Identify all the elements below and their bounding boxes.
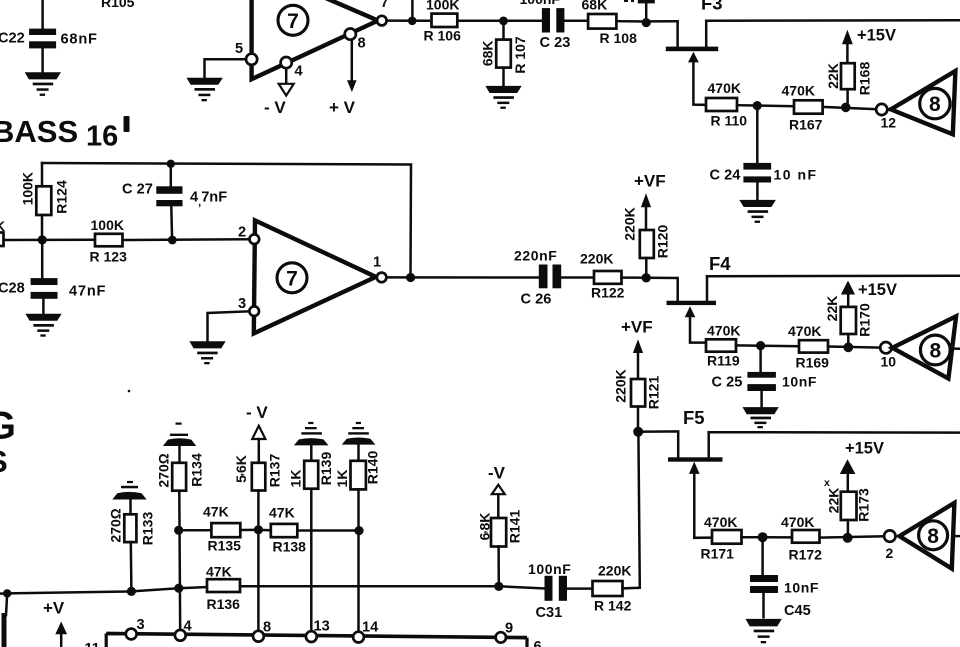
- resistor R133 270R: [108, 500, 156, 592]
- pin 12 input circle: [876, 104, 896, 130]
- resistor R134 270R: [156, 446, 205, 635]
- svg-text:22K: 22K: [825, 63, 841, 89]
- svg-text:R 108: R 108: [600, 30, 638, 46]
- ground below C22: [25, 72, 61, 96]
- capacitor C26 220nF: [514, 248, 561, 308]
- ground below C25: [743, 407, 779, 428]
- capacitor C31 100nF: [528, 561, 571, 621]
- wire from R105 down to C22: [41, 0, 44, 29]
- wire R110 to R167: [737, 101, 794, 110]
- wire R138 to R140 lead: [258, 526, 363, 535]
- svg-text:22K: 22K: [824, 296, 840, 322]
- op-amp U7a (top, cut off): [252, 0, 378, 79]
- svg-text:470K: 470K: [788, 323, 821, 339]
- bus wire from left edge through R133/R134 to R136: [0, 587, 207, 594]
- svg-text:470K: 470K: [707, 323, 740, 339]
- wire R135 to R137 lead: [240, 525, 263, 534]
- resistor R169 470K: [788, 323, 829, 371]
- svg-text:270Ω: 270Ω: [156, 453, 172, 487]
- svg-text:47K: 47K: [206, 564, 232, 580]
- svg-text:1K: 1K: [288, 470, 304, 488]
- svg-text:7: 7: [286, 268, 298, 291]
- IC pin 3: [126, 617, 145, 639]
- op-amp U7b: [254, 220, 376, 333]
- wire R123 to pin 2: [123, 236, 248, 245]
- wire F4 drain rail to right edge: [707, 274, 960, 277]
- svg-text:C31: C31: [536, 605, 563, 621]
- svg-text:+15V: +15V: [845, 440, 884, 458]
- resistor R119 470K: [706, 323, 740, 369]
- svg-text:8: 8: [927, 525, 939, 548]
- svg-text:C 26: C 26: [521, 292, 552, 308]
- +VF arrow for R121: [621, 318, 653, 380]
- resistor R139 1K: [288, 445, 335, 635]
- resistor R135 47K: [203, 504, 241, 554]
- svg-text:4: 4: [295, 64, 304, 80]
- resistor R121 220K: [613, 369, 662, 432]
- pin 8 of U7a: [345, 28, 366, 51]
- pin 1 output of U7b: [373, 255, 386, 283]
- svg-text:220nF: 220nF: [514, 248, 557, 264]
- resistor R136 47K (in series with bus): [206, 564, 240, 613]
- section title BASS 16': [0, 114, 130, 153]
- svg-text:R135: R135: [208, 538, 242, 554]
- pin 2 input circle: [884, 530, 895, 561]
- svg-text:+V: +V: [43, 599, 65, 618]
- svg-text:470K: 470K: [704, 514, 737, 530]
- ground below C45: [746, 619, 782, 643]
- svg-text:+15V: +15V: [857, 26, 896, 44]
- svg-text:C 25: C 25: [712, 375, 743, 391]
- node R121/R142/F5 junction: [633, 427, 643, 437]
- svg-text:47K: 47K: [269, 505, 295, 521]
- wire C22 to ground: [41, 48, 44, 72]
- wire U7b output to C26: [386, 273, 538, 282]
- resistor R141 6.8K: [477, 510, 523, 587]
- transistor F5 (JFET): [638, 407, 722, 538]
- svg-text:100K: 100K: [20, 172, 36, 205]
- node R107 junction: [499, 17, 508, 26]
- wire R172 to amp input: [820, 533, 885, 543]
- wire C26 to R122: [561, 276, 594, 279]
- svg-text:270Ω: 270Ω: [108, 508, 124, 542]
- svg-text:3: 3: [137, 617, 145, 633]
- transistor F3 (JFET): [666, 0, 723, 105]
- svg-text:C28: C28: [0, 281, 25, 297]
- svg-text:47nF: 47nF: [69, 284, 106, 300]
- wire R171 to R172: [742, 532, 793, 542]
- svg-text:S: S: [0, 444, 8, 479]
- svg-text:R171: R171: [701, 546, 735, 562]
- IC pin 13: [306, 619, 330, 642]
- wire R134 node to R135: [174, 526, 211, 535]
- resistor R106 100K: [424, 0, 462, 43]
- svg-text:- V: - V: [264, 98, 286, 117]
- -V arrow above R141: [488, 464, 506, 519]
- resistor R167 470K: [782, 83, 823, 133]
- wire R119 node down to C25: [759, 346, 762, 372]
- svg-text:R119: R119: [707, 353, 740, 369]
- node C27 top junction: [167, 160, 175, 168]
- amplifier U8b triangle: [892, 316, 960, 378]
- wire C31 to R142: [567, 587, 593, 590]
- ground below R107: [485, 86, 521, 109]
- svg-text:2: 2: [886, 545, 894, 561]
- svg-text:8: 8: [358, 36, 366, 52]
- svg-text:220K: 220K: [613, 369, 629, 402]
- bus wire R136 to R141 node and C31: [240, 582, 545, 591]
- wire R122 to F4 node: [622, 273, 651, 282]
- svg-text:10 nF: 10 nF: [774, 167, 818, 183]
- pin 7 output of U7a: [377, 0, 389, 25]
- capacitor C22: [0, 29, 98, 49]
- transistor F4 (JFET): [646, 253, 731, 343]
- svg-text:100K: 100K: [91, 217, 124, 233]
- svg-text:R140: R140: [365, 451, 381, 485]
- wire pin 3 to ground: [208, 311, 248, 341]
- svg-text:68K: 68K: [582, 0, 608, 12]
- pin 5 of U7a: [235, 41, 257, 65]
- svg-text:9: 9: [505, 621, 513, 637]
- svg-text:F4: F4: [709, 253, 731, 274]
- resistor R122 220K: [580, 251, 625, 301]
- IC pin 11 label (cut at bottom): [85, 641, 100, 647]
- capacitor C27 4.7nF: [122, 164, 227, 240]
- svg-text:C45: C45: [784, 603, 811, 619]
- wire R142 up to F5 node: [623, 432, 640, 589]
- resistor R137 5.6K: [233, 454, 283, 635]
- svg-text:10nF: 10nF: [784, 580, 819, 596]
- svg-text:68nF: 68nF: [61, 32, 98, 48]
- svg-text:68K: 68K: [480, 40, 496, 66]
- chassis ground above R133: [112, 481, 146, 500]
- node R124/C28 junction: [38, 235, 47, 244]
- svg-text:6,8K: 6,8K: [477, 513, 493, 541]
- wire R167 node down to C24: [756, 106, 759, 163]
- svg-text:C 27: C 27: [122, 182, 153, 198]
- wire R108 to F3 node: [617, 20, 646, 23]
- -V arrow above R137: [246, 403, 268, 463]
- svg-text:R 107: R 107: [512, 36, 528, 74]
- node left edge junction: [3, 589, 11, 597]
- svg-text:5,6K: 5,6K: [233, 455, 249, 483]
- svg-text:8: 8: [929, 340, 941, 363]
- svg-text:F3: F3: [701, 0, 723, 14]
- resistor R170 22K: [824, 296, 873, 348]
- svg-text:8: 8: [929, 93, 941, 116]
- resistor R172 470K: [781, 514, 822, 563]
- svg-text:R 142: R 142: [594, 598, 632, 614]
- +15V arrow for R168: [842, 26, 896, 63]
- svg-text:R138: R138: [273, 539, 307, 555]
- svg-text:R105: R105: [101, 0, 135, 10]
- svg-text:6: 6: [534, 639, 542, 647]
- IC pin 8: [253, 620, 271, 642]
- svg-text:R121: R121: [646, 376, 662, 410]
- resistor R107 68K: [480, 21, 529, 86]
- svg-text:2: 2: [238, 225, 246, 241]
- svg-text:13: 13: [314, 619, 330, 635]
- wire C23 to R108: [565, 19, 589, 22]
- IC pin 9: [496, 621, 514, 643]
- svg-text:C22: C22: [0, 31, 25, 47]
- wire R167 to amp input: [823, 103, 876, 113]
- chassis ground above R134: [163, 423, 196, 447]
- +V supply arrow at pin 8: [329, 40, 357, 117]
- wire left edge down: [4, 593, 7, 647]
- IC pin 6 label: [534, 639, 542, 647]
- svg-text:220K: 220K: [598, 563, 631, 579]
- node with stub to cut-off component at top: [624, 0, 655, 27]
- svg-text:+15V: +15V: [858, 281, 897, 299]
- wire pin5 to ground corner: [205, 59, 248, 78]
- resistor R105 (label only, component cut off at top): [101, 0, 135, 10]
- chassis ground above R140: [342, 422, 376, 445]
- svg-text:+VF: +VF: [621, 318, 653, 337]
- resistor R110 470K: [706, 80, 747, 128]
- svg-text:G: G: [0, 404, 16, 447]
- pin 2 of U7b: [238, 225, 259, 245]
- svg-text:R122: R122: [591, 285, 625, 301]
- wire R119 to R169: [736, 341, 799, 350]
- svg-text:1K: 1K: [334, 470, 350, 488]
- wire R106 to C23: [457, 19, 542, 22]
- svg-text:R137: R137: [267, 454, 283, 488]
- ground below C28: [25, 314, 61, 337]
- wire U7a output to R106: [387, 19, 429, 22]
- svg-text:R 110: R 110: [711, 113, 748, 129]
- resistor (cut off) at left edge with K label: [0, 218, 5, 246]
- svg-text:R139: R139: [318, 452, 334, 486]
- svg-text:470K: 470K: [708, 80, 741, 96]
- wire node to F3: [646, 20, 677, 23]
- chassis ground above R139: [294, 422, 329, 446]
- svg-text:R120: R120: [655, 225, 671, 259]
- +15V arrow for R173: [824, 440, 884, 492]
- svg-text:5: 5: [235, 41, 243, 57]
- capacitor C23 100nF: [520, 0, 571, 51]
- svg-text:R136: R136: [207, 596, 241, 612]
- pin 3 of U7b: [238, 296, 259, 316]
- capacitor C45 10nF: [750, 575, 819, 619]
- -V supply arrow at pin 4: [264, 69, 294, 118]
- wire F3 drain rail to right edge: [706, 19, 960, 22]
- resistor R168 22K: [825, 62, 873, 108]
- svg-text:R133: R133: [140, 512, 156, 546]
- svg-text:F5: F5: [683, 407, 705, 428]
- svg-text:R168: R168: [857, 62, 873, 96]
- resistor R123 100K: [90, 217, 128, 265]
- big letter S (cut at left edge): [0, 444, 8, 479]
- svg-text:10: 10: [881, 354, 897, 370]
- svg-text:R124: R124: [54, 180, 70, 214]
- svg-text:10nF: 10nF: [782, 374, 817, 390]
- big letter G (cut at left edge): [0, 404, 16, 447]
- ground below C24: [739, 200, 776, 223]
- +V arrow at bottom left: [43, 599, 67, 647]
- svg-text:14: 14: [362, 620, 379, 636]
- amplifier U8c triangle: [900, 503, 960, 569]
- IC box outline (cut at bottom): [106, 634, 527, 647]
- ground at U7b pin 3: [189, 341, 225, 364]
- svg-text:R141: R141: [507, 510, 523, 544]
- resistor R142 220K: [593, 563, 632, 614]
- resistor R124 100K: [20, 163, 70, 240]
- node R133 bus junction: [127, 587, 136, 596]
- svg-text:+ V: + V: [329, 98, 356, 117]
- wire R169 to amp input: [828, 342, 880, 352]
- svg-text:R 123: R 123: [90, 249, 128, 265]
- pin 10 input circle: [880, 342, 896, 370]
- wire input to R123: [4, 239, 96, 242]
- wire feedback rail (top of BASS section): [42, 163, 411, 278]
- resistor R140 1K: [334, 445, 381, 636]
- svg-text:R172: R172: [789, 547, 823, 563]
- resistor R173 22K: [826, 488, 872, 538]
- capacitor C28 47nF: [0, 240, 106, 314]
- wire R171 node down to C45: [761, 537, 764, 575]
- svg-text:470K: 470K: [782, 83, 815, 99]
- svg-text:16: 16: [86, 121, 118, 153]
- pin 4 of U7a: [281, 57, 304, 80]
- wire F5 drain rail to right edge: [709, 431, 960, 434]
- svg-text:BASS: BASS: [0, 114, 78, 149]
- +VF arrow for R120: [634, 172, 666, 231]
- svg-text:100nF: 100nF: [520, 0, 561, 7]
- svg-text:7: 7: [381, 0, 389, 11]
- svg-text:7: 7: [287, 10, 299, 33]
- resistor R138 47K: [269, 505, 306, 555]
- svg-text:+VF: +VF: [634, 172, 666, 191]
- node feedback stub up from output: [408, 0, 417, 25]
- svg-text:- V: - V: [246, 403, 268, 422]
- svg-text:C 24: C 24: [710, 167, 742, 183]
- capacitor C24 10nF: [710, 163, 818, 200]
- svg-text:-V: -V: [488, 464, 506, 483]
- node R134 bus junction: [174, 584, 183, 593]
- +15V arrow for R170: [841, 281, 897, 307]
- svg-text:R170: R170: [857, 303, 873, 337]
- svg-text:R173: R173: [856, 488, 872, 522]
- svg-text:100nF: 100nF: [528, 561, 571, 577]
- svg-text:220K: 220K: [622, 207, 638, 240]
- svg-text:C 23: C 23: [540, 35, 571, 51]
- svg-text:x: x: [824, 477, 830, 489]
- svg-text:100K: 100K: [426, 0, 459, 12]
- svg-text:R 106: R 106: [424, 27, 462, 43]
- svg-text:22K: 22K: [826, 488, 842, 514]
- svg-text:1: 1: [373, 255, 381, 271]
- resistor R171 470K: [701, 514, 742, 562]
- svg-text:47K: 47K: [203, 504, 229, 520]
- svg-text:R134: R134: [189, 453, 205, 487]
- resistor R120 220K: [622, 207, 671, 278]
- resistor R108 68K: [582, 0, 638, 46]
- amplifier U8a triangle: [891, 71, 956, 134]
- svg-text:11: 11: [85, 641, 100, 647]
- svg-text:470K: 470K: [781, 514, 814, 530]
- IC pin 4: [175, 619, 193, 641]
- capacitor C25 10nF: [712, 372, 818, 408]
- svg-text:3: 3: [238, 296, 246, 312]
- ground at op-amp U7a pin 5: [187, 78, 223, 102]
- svg-text:R167: R167: [789, 117, 823, 133]
- speck: [128, 390, 131, 393]
- IC pin 14: [353, 620, 379, 643]
- svg-text:8: 8: [263, 620, 271, 636]
- svg-text:R169: R169: [796, 355, 830, 371]
- svg-text:220K: 220K: [580, 251, 613, 267]
- svg-text:12: 12: [881, 114, 897, 130]
- svg-text:4: 4: [184, 619, 193, 635]
